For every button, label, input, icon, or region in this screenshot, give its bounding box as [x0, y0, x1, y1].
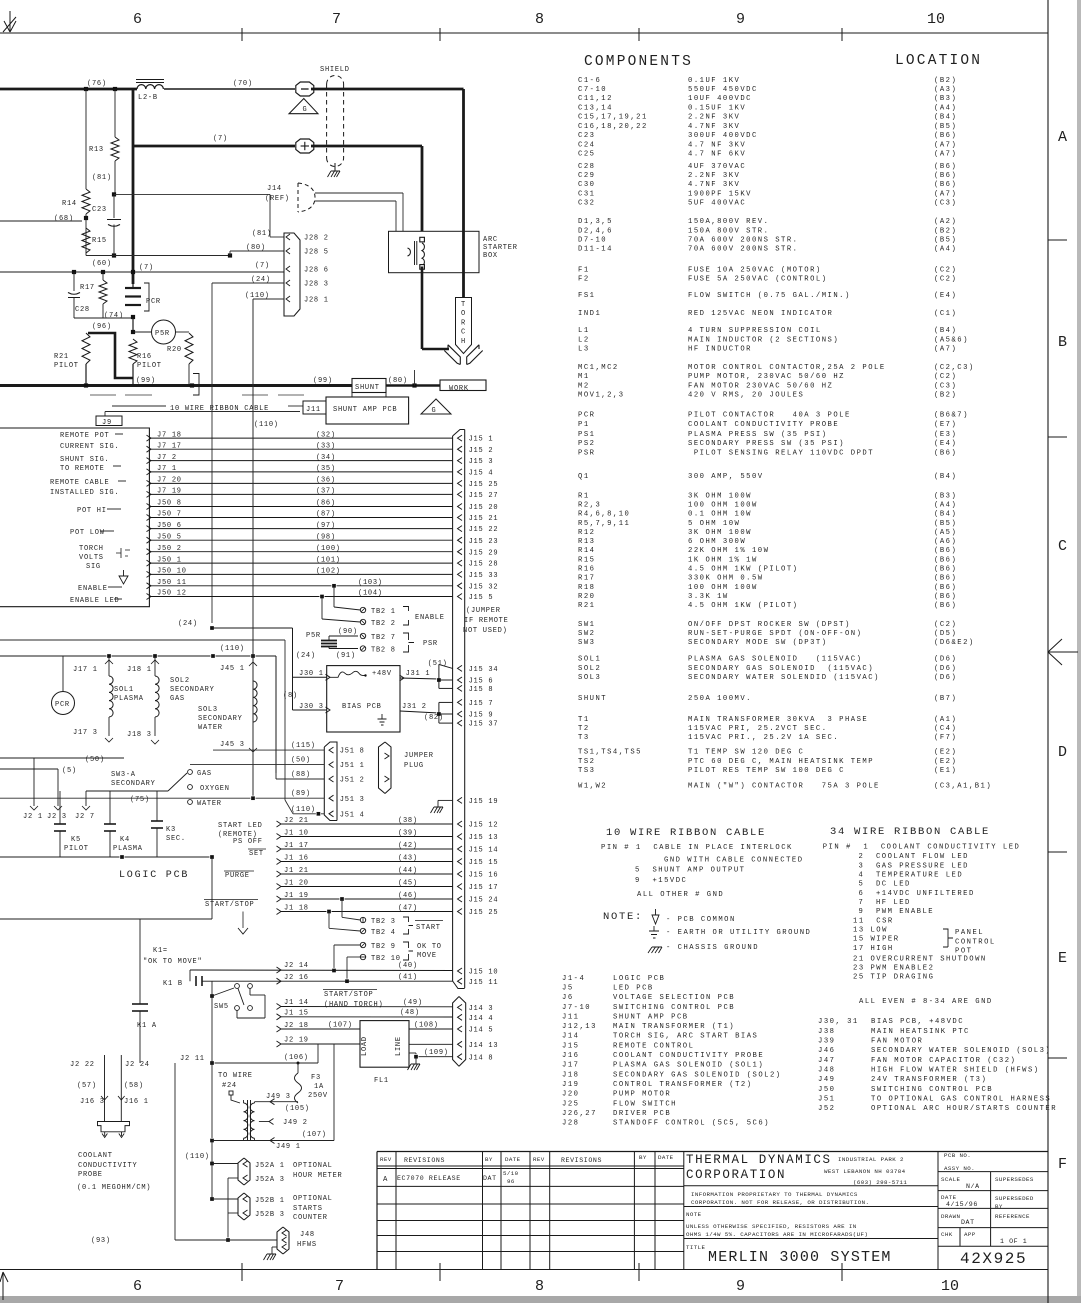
svg-text:LOGIC PCB: LOGIC PCB: [613, 975, 665, 983]
svg-text:POT HI: POT HI: [77, 507, 107, 515]
svg-text:(E2): (E2): [934, 758, 957, 766]
svg-text:PLASMA: PLASMA: [113, 845, 143, 853]
svg-text:J15 27: J15 27: [469, 492, 499, 500]
svg-text:J18 3: J18 3: [127, 731, 152, 739]
svg-text:R20: R20: [578, 593, 595, 601]
svg-text:250V: 250V: [308, 1092, 328, 1100]
svg-text:FL1: FL1: [374, 1077, 389, 1085]
svg-text:SWITCHING CONTROL PCB: SWITCHING CONTROL PCB: [871, 1086, 993, 1094]
svg-text:SW2: SW2: [578, 630, 595, 638]
svg-text:SHUNT: SHUNT: [355, 384, 380, 392]
chassis ground J15 19: [431, 807, 444, 813]
svg-text:CONDUCTIVITY: CONDUCTIVITY: [78, 1162, 137, 1170]
svg-text:(B2): (B2): [934, 77, 957, 85]
svg-text:LOGIC PCB: LOGIC PCB: [119, 870, 189, 881]
svg-text:PS OFF: PS OFF: [233, 838, 263, 846]
svg-text:EC7070 RELEASE: EC7070 RELEASE: [397, 1175, 461, 1182]
svg-text:7: 7: [332, 11, 341, 28]
svg-text:REVISIONS: REVISIONS: [561, 1157, 602, 1164]
svg-text:R16: R16: [578, 566, 595, 574]
svg-text:(40): (40): [398, 962, 418, 970]
svg-text:(A2): (A2): [934, 218, 957, 226]
svg-text:300UF 400VDC: 300UF 400VDC: [688, 132, 758, 140]
svg-text:TO OPTIONAL GAS CONTROL HARNES: TO OPTIONAL GAS CONTROL HARNESS: [871, 1095, 1051, 1103]
svg-text:BIAS PCB: BIAS PCB: [342, 703, 382, 711]
svg-text:(97): (97): [316, 522, 336, 530]
svg-text:REMOTE CONTROL: REMOTE CONTROL: [613, 1042, 694, 1050]
svg-text:BY: BY: [639, 1154, 647, 1161]
svg-text:(32): (32): [316, 431, 336, 439]
svg-text:K1 B: K1 B: [163, 980, 183, 988]
svg-text:ENABLE: ENABLE: [415, 614, 445, 622]
svg-text:0.1UF 1KV: 0.1UF 1KV: [688, 77, 740, 85]
revisions table: [377, 1151, 1048, 1153]
svg-text:J15 34: J15 34: [469, 666, 499, 674]
svg-text:J45 3: J45 3: [220, 741, 245, 749]
svg-text:PILOT RES TEMP SW 100 DEG C: PILOT RES TEMP SW 100 DEG C: [688, 767, 845, 775]
wire from shunt junction: [414, 370, 416, 386]
svg-text:MOTOR CONTROL CONTACTOR,25A 2: MOTOR CONTROL CONTACTOR,25A 2 POLE: [688, 364, 886, 372]
svg-text:CHK: CHK: [941, 1231, 953, 1238]
svg-text:(C2,C3): (C2,C3): [934, 364, 975, 372]
svg-text:J15 6: J15 6: [469, 678, 494, 686]
svg-text:J31 2: J31 2: [402, 703, 427, 711]
svg-text:K5: K5: [71, 836, 81, 844]
svg-text:70A 600V 200NS STR.: 70A 600V 200NS STR.: [688, 246, 798, 254]
svg-text:17 HIGH: 17 HIGH: [853, 945, 894, 953]
svg-text:(50): (50): [85, 756, 105, 764]
svg-text:NOTE: NOTE: [686, 1211, 702, 1218]
arc starter transformer: [422, 243, 424, 266]
svg-text:10: 10: [927, 11, 945, 28]
work bus: [0, 384, 352, 387]
svg-text:(93): (93): [91, 1237, 111, 1245]
svg-text:J28 1: J28 1: [304, 297, 329, 305]
resistor R15: [85, 214, 87, 256]
svg-text:24V TRANSFORMER (T3): 24V TRANSFORMER (T3): [871, 1076, 987, 1084]
svg-text:(37): (37): [316, 488, 336, 496]
terminal TB2 4: [360, 928, 365, 933]
svg-text:WEST LEBANON NH 03784: WEST LEBANON NH 03784: [824, 1168, 906, 1175]
svg-text:TS3: TS3: [578, 767, 595, 775]
connector J15 long channel: [453, 430, 465, 437]
resistor R16 pilot: [129, 339, 137, 364]
svg-text:SWITCHING CONTROL PCB: SWITCHING CONTROL PCB: [613, 1004, 735, 1012]
svg-text:J2 14: J2 14: [284, 962, 309, 970]
svg-text:J9: J9: [102, 419, 112, 427]
svg-text:(81): (81): [92, 174, 112, 182]
svg-text:J12,13: J12,13: [562, 1023, 597, 1031]
corner arrow top-left: [3, 11, 16, 32]
svg-text:SECONDARY: SECONDARY: [111, 780, 156, 788]
svg-text:SECONDARY MODE SW (DP3T): SECONDARY MODE SW (DP3T): [688, 639, 828, 647]
svg-text:SUPERSEDED: SUPERSEDED: [995, 1195, 1034, 1202]
svg-text:(43): (43): [398, 855, 418, 863]
svg-text:J15 22: J15 22: [469, 526, 499, 534]
svg-text:C29: C29: [578, 172, 595, 180]
svg-text:T1 TEMP SW 120 DEG C: T1 TEMP SW 120 DEG C: [688, 749, 804, 757]
svg-text:J19: J19: [562, 1081, 579, 1089]
svg-text:(E1): (E1): [934, 767, 957, 775]
svg-text:R21: R21: [578, 602, 595, 610]
svg-text:J15 12: J15 12: [469, 822, 499, 830]
svg-text:(70): (70): [233, 80, 253, 88]
coolant conductivity probe symbol: [98, 1122, 130, 1132]
svg-text:DRIVER PCB: DRIVER PCB: [613, 1110, 671, 1118]
svg-text:SOL2: SOL2: [578, 665, 601, 673]
wire 109 to J14 8: [409, 1052, 416, 1054]
wire 110 chamfer into J51 4: [285, 800, 293, 814]
svg-text:(48): (48): [400, 1009, 420, 1017]
svg-text:100 OHM 100W: 100 OHM 100W: [688, 501, 758, 509]
svg-text:PILOT SENSING RELAY 110VDC DPD: PILOT SENSING RELAY 110VDC DPDT: [688, 449, 874, 457]
svg-text:J14: J14: [267, 185, 282, 193]
svg-text:ALL EVEN # 8-34 ARE GND: ALL EVEN # 8-34 ARE GND: [859, 998, 993, 1006]
svg-text:J15: J15: [562, 1042, 579, 1050]
svg-text:FLOW SWITCH: FLOW SWITCH: [613, 1100, 677, 1108]
svg-text:SHUNT: SHUNT: [578, 695, 607, 703]
J52 feed junctions: [210, 1161, 214, 1165]
connector J14 channel: [453, 997, 466, 1067]
svg-text:J17: J17: [562, 1062, 579, 1070]
svg-text:J17 1: J17 1: [73, 666, 98, 674]
svg-text:5 OHM 10W: 5 OHM 10W: [688, 520, 740, 528]
svg-text:(E2): (E2): [934, 749, 957, 757]
svg-text:(B6): (B6): [934, 566, 957, 574]
svg-text:BY: BY: [485, 1156, 493, 1163]
svg-text:7: 7: [335, 1278, 344, 1295]
svg-text:PLASMA GAS SOLENOID (115VAC): PLASMA GAS SOLENOID (115VAC): [688, 656, 862, 664]
svg-text:J1-4: J1-4: [562, 975, 585, 983]
T3 secondary bottom and J49 1: [254, 1138, 256, 1140]
svg-text:PCR: PCR: [146, 298, 161, 306]
svg-text:#24: #24: [222, 1082, 237, 1090]
svg-text:FLOW SWITCH (0.75 GAL./MIN.): FLOW SWITCH (0.75 GAL./MIN.): [688, 292, 851, 300]
svg-text:9 +15VDC: 9 +15VDC: [635, 877, 687, 885]
svg-text:CORPORATION. NOT FOR RELEASE,: CORPORATION. NOT FOR RELEASE, OR DISTRIB…: [691, 1199, 869, 1206]
svg-text:P1: P1: [578, 421, 590, 429]
svg-text:J1 14: J1 14: [284, 999, 309, 1007]
svg-text:100 OHM 100W: 100 OHM 100W: [688, 584, 758, 592]
svg-text:SECONDARY WATER SOLENOID (SOL3: SECONDARY WATER SOLENOID (SOL3): [871, 1047, 1051, 1055]
line filter FL1 load line box: [360, 1021, 409, 1068]
svg-text:SEC.: SEC.: [166, 835, 186, 843]
svg-text:OXYGEN: OXYGEN: [200, 785, 230, 793]
work terminal: [440, 380, 486, 391]
T3 primary wires: [243, 1100, 245, 1103]
svg-text:(A4): (A4): [934, 501, 957, 509]
svg-text:K1=: K1=: [153, 947, 168, 955]
svg-text:J25: J25: [562, 1100, 579, 1108]
wire (7) positive: [133, 145, 295, 148]
svg-text:150A 800V STR.: 150A 800V STR.: [688, 227, 769, 235]
svg-text:(96): (96): [92, 323, 112, 331]
svg-text:FS1: FS1: [578, 292, 595, 300]
svg-text:J15 25: J15 25: [469, 481, 499, 489]
svg-text:(100): (100): [316, 545, 341, 553]
svg-text:J16: J16: [562, 1052, 579, 1060]
svg-text:(102): (102): [316, 568, 341, 576]
svg-text:J2 24: J2 24: [125, 1061, 150, 1069]
svg-text:J15 3: J15 3: [469, 458, 494, 466]
svg-text:J51 2: J51 2: [340, 777, 365, 785]
svg-text:C16,18,20,22: C16,18,20,22: [578, 123, 648, 131]
svg-text:PSR: PSR: [423, 640, 438, 648]
svg-text:(58): (58): [124, 1082, 144, 1090]
svg-text:J49 1: J49 1: [276, 1143, 301, 1151]
svg-text:(49): (49): [403, 999, 423, 1007]
logic pcb control rows to J15: [277, 821, 282, 827]
svg-text:115VAC PRI., 25.2V 1A SEC.: 115VAC PRI., 25.2V 1A SEC.: [688, 734, 839, 742]
svg-text:FAN MOTOR: FAN MOTOR: [871, 1038, 923, 1046]
bus shading dashes: [90, 394, 116, 396]
svg-text:J18: J18: [562, 1071, 579, 1079]
pcb common symbol: [652, 915, 659, 924]
svg-text:(57): (57): [77, 1082, 97, 1090]
main negative bus wire (76): [0, 88, 137, 91]
svg-text:SW5: SW5: [214, 1003, 229, 1011]
svg-text:J46: J46: [818, 1047, 835, 1055]
remote signal rows to J15 connector: [147, 435, 152, 441]
svg-text:(A5&6): (A5&6): [934, 336, 969, 344]
left frame rail to J48: [174, 1063, 176, 1240]
svg-text:13 LOW: 13 LOW: [853, 927, 888, 935]
svg-text:J52: J52: [818, 1105, 835, 1113]
svg-text:J15 17: J15 17: [469, 884, 499, 892]
svg-text:PCB NO.: PCB NO.: [944, 1152, 971, 1159]
svg-text:P5R: P5R: [306, 632, 321, 640]
torch volts +- bracket: [116, 548, 130, 558]
svg-text:J28 5: J28 5: [304, 249, 329, 257]
svg-text:REFERENCE: REFERENCE: [995, 1213, 1030, 1220]
svg-text:NOTE:: NOTE:: [603, 911, 643, 923]
svg-text:J15 25: J15 25: [469, 909, 499, 917]
svg-text:(F7): (F7): [934, 734, 957, 742]
svg-text:J15 23: J15 23: [469, 538, 499, 546]
svg-text:G: G: [303, 106, 308, 114]
svg-text:6 +14VDC UNFILTERED: 6 +14VDC UNFILTERED: [859, 890, 975, 898]
svg-text:(B6): (B6): [934, 593, 957, 601]
svg-text:(104): (104): [358, 590, 383, 598]
svg-text:6: 6: [133, 11, 142, 28]
connector J9: [96, 416, 122, 426]
svg-text:J28 6: J28 6: [304, 267, 329, 275]
svg-text:PTC 60 DEG C, MAIN HEATSINK TE: PTC 60 DEG C, MAIN HEATSINK TEMP: [688, 758, 874, 766]
svg-text:9: 9: [736, 1278, 745, 1295]
svg-text:(35): (35): [316, 465, 336, 473]
svg-text:COOLANT: COOLANT: [78, 1152, 113, 1160]
svg-text:J15 7: J15 7: [469, 700, 494, 708]
svg-text:R20: R20: [167, 346, 182, 354]
svg-text:F1: F1: [578, 266, 590, 274]
svg-text:HFWS: HFWS: [297, 1241, 317, 1249]
svg-text:(82): (82): [424, 714, 444, 722]
svg-text:(110): (110): [254, 421, 279, 429]
svg-text:C31: C31: [578, 191, 595, 199]
svg-text:J15 10: J15 10: [469, 969, 499, 977]
svg-text:J38: J38: [818, 1028, 835, 1036]
svg-text:L3: L3: [578, 346, 590, 354]
svg-text:A: A: [383, 1176, 388, 1184]
svg-text:J15 24: J15 24: [469, 897, 499, 905]
svg-text:(E4): (E4): [934, 440, 957, 448]
svg-text:MAIN INDUCTOR (2 SECTIONS): MAIN INDUCTOR (2 SECTIONS): [688, 336, 839, 344]
svg-text:J14 4: J14 4: [469, 1015, 494, 1023]
svg-text:2.2NF 3KV: 2.2NF 3KV: [688, 172, 740, 180]
svg-text:J2 19: J2 19: [284, 1037, 309, 1045]
junctions on control rows: [340, 897, 344, 901]
gray wire 110 horizontal: [0, 639, 285, 641]
svg-text:(HAND TORCH): (HAND TORCH): [324, 1001, 383, 1009]
svg-text:PS2: PS2: [578, 440, 595, 448]
svg-text:(D5): (D5): [934, 630, 957, 638]
svg-text:1K OHM 1% 1W: 1K OHM 1% 1W: [688, 556, 758, 564]
svg-text:(107): (107): [302, 1131, 327, 1139]
svg-text:HF INDUCTOR: HF INDUCTOR: [688, 346, 752, 354]
svg-text:PURGE: PURGE: [225, 872, 250, 880]
svg-text:(E7): (E7): [934, 421, 957, 429]
svg-text:REMOTE POT: REMOTE POT: [60, 432, 110, 440]
svg-text:J2 7: J2 7: [75, 813, 95, 821]
svg-text:420 V RMS, 20 JOULES: 420 V RMS, 20 JOULES: [688, 392, 804, 400]
svg-text:SHUNT AMP PCB: SHUNT AMP PCB: [333, 406, 397, 414]
svg-text:POT LOW: POT LOW: [70, 529, 105, 537]
svg-text:70A 600V 200NS STR.: 70A 600V 200NS STR.: [688, 237, 798, 245]
J15 bias row arrows: [458, 665, 463, 671]
svg-text:(B5): (B5): [934, 123, 957, 131]
svg-text:POT: POT: [955, 948, 972, 956]
svg-text:R17: R17: [80, 284, 95, 292]
svg-text:SW1: SW1: [578, 621, 595, 629]
svg-text:SOL1: SOL1: [578, 656, 601, 664]
svg-text:CURRENT SIG.: CURRENT SIG.: [60, 443, 119, 451]
svg-text:(91): (91): [336, 652, 356, 660]
svg-text:(101): (101): [316, 556, 341, 564]
svg-text:(34): (34): [316, 454, 336, 462]
svg-text:150A,800V REV.: 150A,800V REV.: [688, 218, 769, 226]
svg-text:(B6): (B6): [934, 181, 957, 189]
svg-text:J14 5: J14 5: [469, 1027, 494, 1035]
svg-text:(45): (45): [398, 880, 418, 888]
svg-text:(B4): (B4): [934, 114, 957, 122]
label dash marks: [115, 433, 123, 435]
svg-text:3K OHM 100W: 3K OHM 100W: [688, 529, 752, 537]
svg-text:J15 29: J15 29: [469, 549, 499, 557]
svg-text:(A4): (A4): [934, 246, 957, 254]
svg-text:3K OHM 100W: 3K OHM 100W: [688, 492, 752, 500]
svg-text:4.5 OHM 1KW (PILOT): 4.5 OHM 1KW (PILOT): [688, 602, 798, 610]
svg-text:(80): (80): [246, 244, 266, 252]
svg-text:COMPONENTS: COMPONENTS: [584, 54, 693, 70]
svg-text:DATE: DATE: [658, 1154, 674, 1161]
svg-text:SECONDARY: SECONDARY: [170, 686, 215, 694]
relay contact K4: [109, 791, 111, 824]
svg-text:COUNTER: COUNTER: [293, 1214, 328, 1222]
svg-text:D1,3,5: D1,3,5: [578, 218, 613, 226]
wire (81) to J28 2: [114, 193, 270, 195]
arrow below start stop: [238, 928, 248, 934]
svg-text:SHIELD: SHIELD: [320, 66, 350, 74]
svg-text:42X925: 42X925: [960, 1250, 1027, 1268]
svg-text:(7): (7): [255, 262, 270, 270]
svg-text:STARTS: STARTS: [293, 1205, 323, 1213]
svg-text:(B4): (B4): [934, 327, 957, 335]
svg-text:4UF 370VAC: 4UF 370VAC: [688, 163, 746, 171]
svg-text:R14: R14: [578, 547, 595, 555]
svg-text:J30, 31: J30, 31: [818, 1018, 859, 1026]
svg-text:J18 1: J18 1: [127, 666, 152, 674]
relay contact K5: [59, 791, 61, 824]
svg-text:TB2 3: TB2 3: [371, 918, 396, 926]
bias pcb squiggle: [330, 671, 365, 677]
sw5 rail down to T3: [211, 981, 213, 1140]
svg-text:M2: M2: [578, 382, 590, 390]
svg-text:SET: SET: [249, 850, 264, 858]
svg-text:J15 15: J15 15: [469, 859, 499, 867]
svg-text:REMOTE CABLE: REMOTE CABLE: [50, 479, 109, 487]
svg-text:PLASMA GAS SOLENOID (SOL1): PLASMA GAS SOLENOID (SOL1): [613, 1062, 764, 1070]
svg-text:J52B 1: J52B 1: [255, 1197, 285, 1205]
svg-text:(B6): (B6): [934, 449, 957, 457]
relay K1 A contact: [139, 919, 141, 1004]
svg-text:W1,W2: W1,W2: [578, 782, 607, 790]
svg-text:MAIN TRANSFORMER 30KVA 3 PHAS: MAIN TRANSFORMER 30KVA 3 PHASE: [688, 716, 868, 724]
svg-text:J50: J50: [818, 1086, 835, 1094]
svg-text:JUMPER: JUMPER: [404, 752, 434, 760]
svg-text:(C2): (C2): [934, 266, 957, 274]
svg-text:J2 22: J2 22: [70, 1061, 95, 1069]
svg-text:PROBE: PROBE: [78, 1171, 103, 1179]
svg-text:300 AMP, 550V: 300 AMP, 550V: [688, 473, 764, 481]
svg-text:TO WIRE: TO WIRE: [218, 1072, 253, 1080]
svg-text:(47): (47): [398, 905, 418, 913]
torch arrow wings: [444, 345, 460, 365]
svg-text:K3: K3: [166, 826, 176, 834]
svg-text:(106): (106): [284, 1054, 309, 1062]
svg-text:(A7): (A7): [934, 141, 957, 149]
svg-text:TB2 10: TB2 10: [371, 955, 401, 963]
svg-text:J39: J39: [818, 1038, 835, 1046]
svg-text:10UF 400VDC: 10UF 400VDC: [688, 95, 752, 103]
svg-text:START: START: [416, 924, 441, 932]
svg-text:REV: REV: [533, 1156, 545, 1163]
svg-text:RUN-SET-PURGE SPDT (ON-OFF-ON): RUN-SET-PURGE SPDT (ON-OFF-ON): [688, 630, 862, 638]
svg-text:22K OHM 1% 10W: 22K OHM 1% 10W: [688, 547, 769, 555]
svg-text:PIN # 1 COOLANT CONDUCTIVITY: PIN # 1 COOLANT CONDUCTIVITY LED: [823, 844, 1021, 852]
svg-text:DAT: DAT: [483, 1175, 497, 1182]
svg-text:(C3): (C3): [934, 200, 957, 208]
chassis ground symbol: [648, 947, 662, 953]
svg-text:J16 1: J16 1: [124, 1098, 149, 1106]
svg-text:R15: R15: [578, 556, 595, 564]
svg-text:DATE: DATE: [941, 1194, 957, 1201]
svg-text:10: 10: [941, 1278, 959, 1295]
svg-text:COOLANT CONDUCTIVITY PROBE: COOLANT CONDUCTIVITY PROBE: [613, 1052, 764, 1060]
svg-text:G: G: [432, 407, 437, 415]
arc starter box: [389, 231, 480, 272]
svg-text:3 GAS PRESSURE LED: 3 GAS PRESSURE LED: [859, 862, 969, 870]
wire (24) vertical: [212, 282, 284, 284]
svg-text:START/STOP: START/STOP: [324, 991, 374, 999]
svg-text:R13: R13: [89, 146, 104, 154]
svg-text:(46): (46): [398, 892, 418, 900]
svg-text:DATE: DATE: [505, 1156, 521, 1163]
resistor R14: [85, 89, 87, 189]
svg-text:R: R: [461, 319, 466, 327]
panel control pot bracket: [943, 929, 953, 947]
svg-text:T1: T1: [578, 716, 590, 724]
svg-text:4.7NF 3KV: 4.7NF 3KV: [688, 123, 740, 131]
